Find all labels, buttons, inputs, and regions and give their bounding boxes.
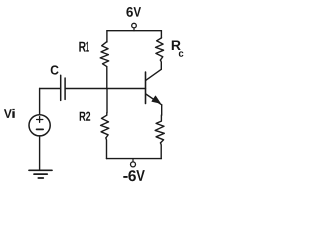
- source minus sign: [37, 128, 44, 130]
- wire bottom supply rail: [107, 158, 162, 160]
- node -6V terminal: [131, 159, 136, 167]
- wire top supply rail: [107, 30, 161, 32]
- wire base lead: [66, 88, 146, 90]
- wire left rail upper: [106, 31, 108, 42]
- label C: [51, 65, 59, 74]
- source plus sign: [37, 117, 43, 123]
- label Vi: [4, 109, 15, 118]
- wire emitter to Re: [161, 105, 163, 115]
- label -6V: [123, 170, 145, 181]
- wire left rail lower: [105, 138, 108, 159]
- label R2: [80, 112, 91, 121]
- label 6V: [126, 7, 141, 17]
- transistor Q1 base bar: [145, 72, 147, 104]
- wire left rail junction to R2: [106, 89, 108, 113]
- resistor Rc: [156, 38, 164, 60]
- label R1: [79, 42, 89, 52]
- resistor R1: [100, 42, 109, 67]
- wire capacitor to source: [40, 88, 60, 90]
- resistor R2: [101, 113, 109, 138]
- capacitor C: [61, 75, 65, 100]
- label Rc: [172, 41, 184, 57]
- wire collector diagonal: [146, 69, 161, 80]
- ground: [29, 170, 52, 178]
- resistor Re: [155, 115, 164, 143]
- wire right rail upper: [160, 31, 162, 38]
- wire left rail to base junction: [106, 67, 108, 89]
- wire source stem bottom: [39, 136, 41, 170]
- source Vi circle: [29, 115, 50, 136]
- wire source stem top: [39, 89, 41, 115]
- wire right rail lower: [160, 143, 163, 159]
- node +6V terminal: [132, 23, 137, 30]
- transistor Q1 emitter with arrow: [146, 94, 162, 105]
- wire collector stub: [159, 60, 162, 69]
